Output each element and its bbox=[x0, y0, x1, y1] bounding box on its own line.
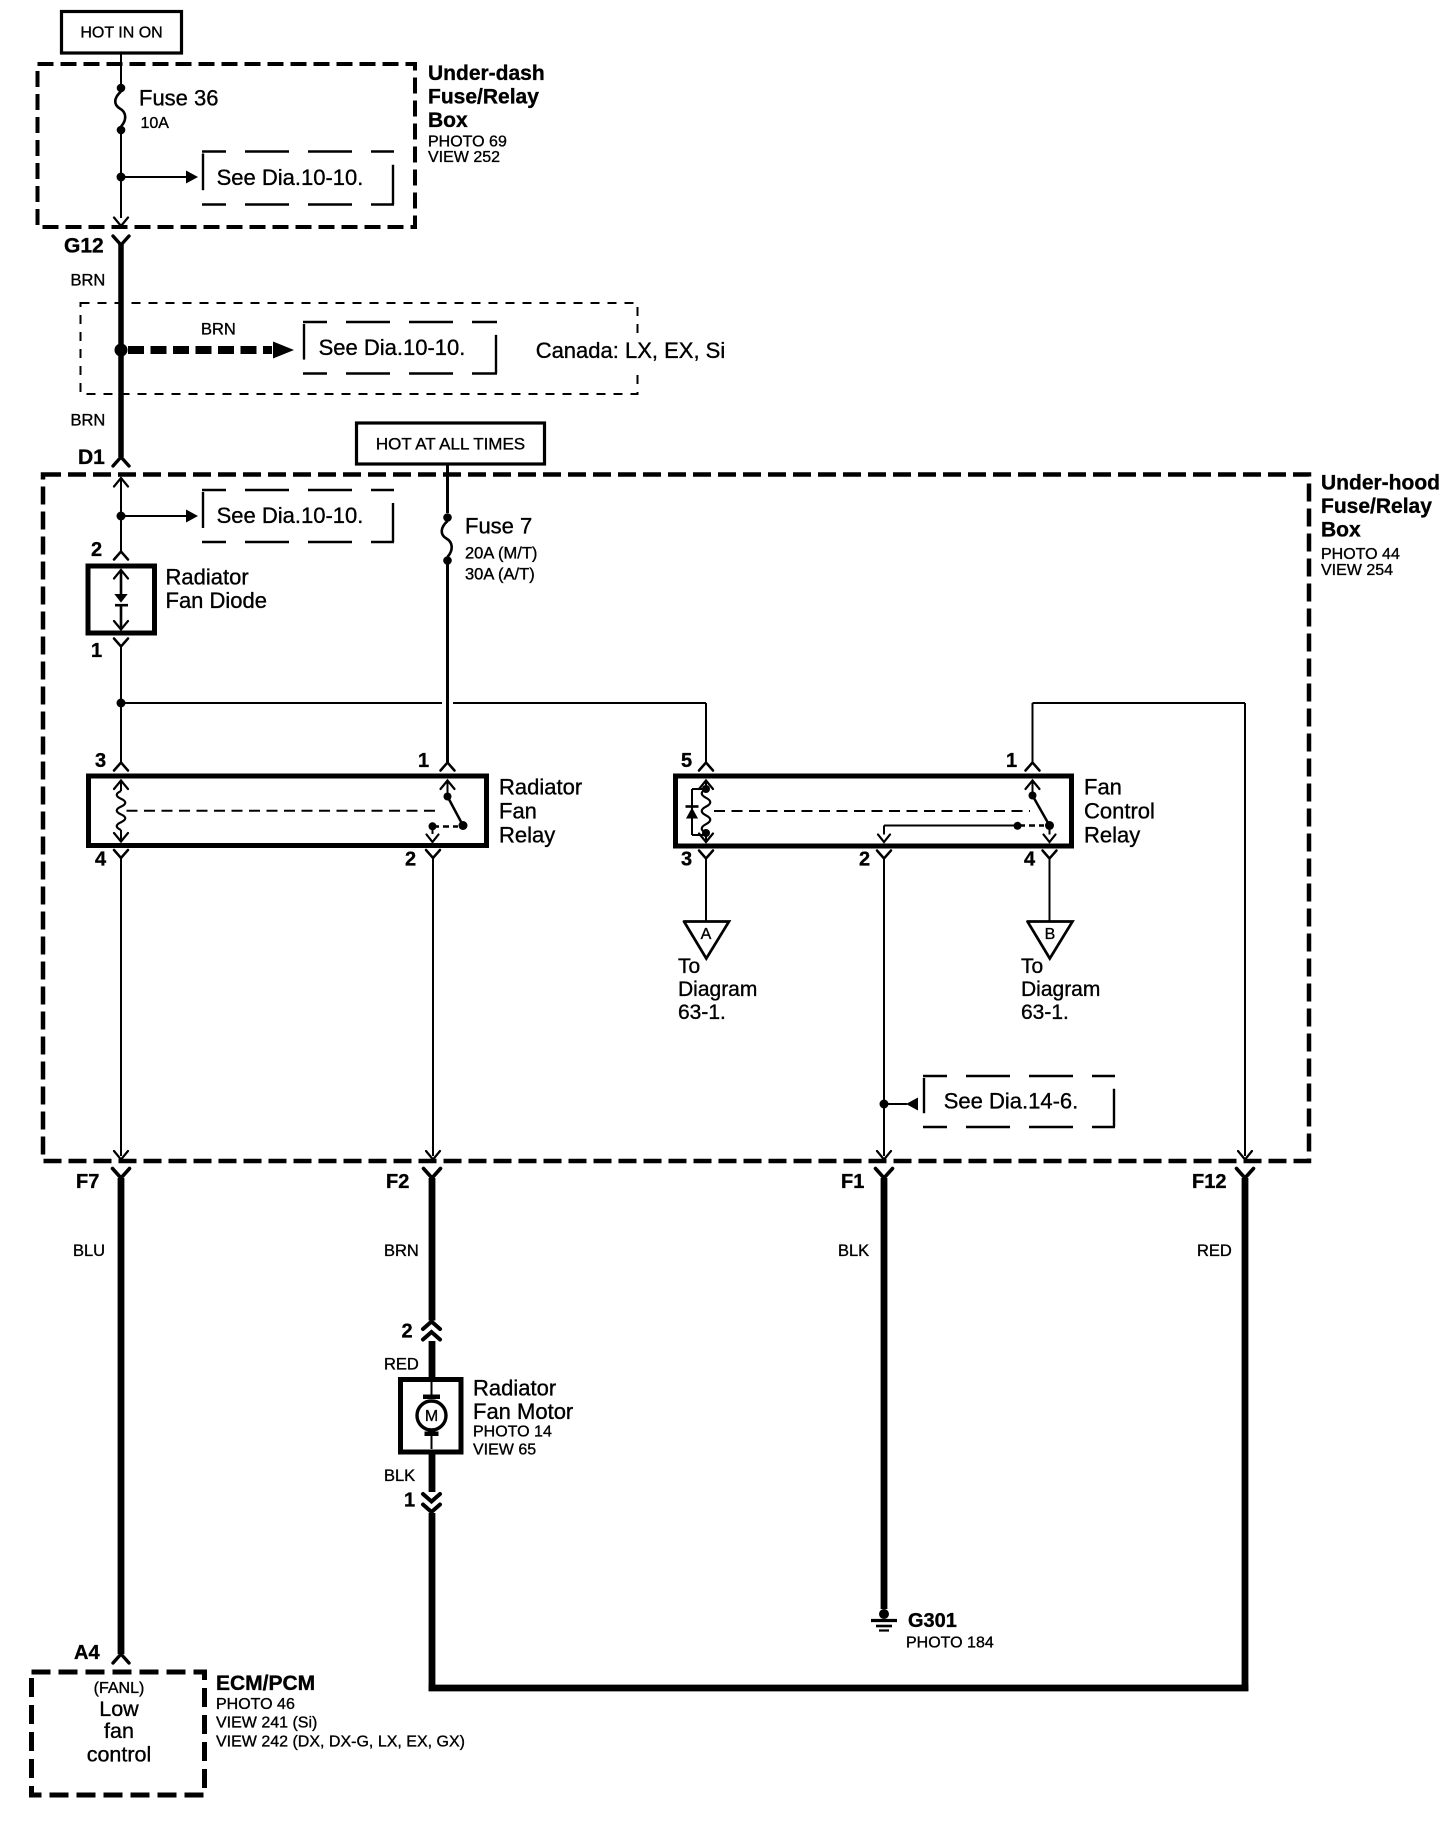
svg-text:(FANL): (FANL) bbox=[94, 1680, 145, 1697]
svg-text:G301: G301 bbox=[908, 1610, 957, 1632]
svg-text:Relay: Relay bbox=[499, 823, 555, 848]
svg-text:Fan Diode: Fan Diode bbox=[166, 588, 268, 613]
svg-text:PHOTO 46: PHOTO 46 bbox=[216, 1696, 295, 1713]
svg-text:4: 4 bbox=[1024, 849, 1036, 871]
svg-text:2: 2 bbox=[91, 539, 102, 561]
svg-text:Relay: Relay bbox=[1084, 823, 1140, 848]
svg-text:Fan: Fan bbox=[499, 799, 537, 824]
svg-text:Control: Control bbox=[1084, 799, 1155, 824]
svg-text:Box: Box bbox=[428, 109, 468, 132]
svg-text:Radiator: Radiator bbox=[166, 565, 249, 590]
svg-text:VIEW 242 (DX, DX-G, LX, EX, GX: VIEW 242 (DX, DX-G, LX, EX, GX) bbox=[216, 1734, 465, 1751]
svg-text:2: 2 bbox=[405, 849, 416, 871]
svg-text:B: B bbox=[1045, 926, 1056, 943]
svg-text:Fuse 7: Fuse 7 bbox=[465, 514, 532, 539]
svg-text:VIEW 252: VIEW 252 bbox=[428, 149, 500, 166]
svg-text:See Dia.10-10.: See Dia.10-10. bbox=[217, 503, 364, 528]
svg-text:See Dia.10-10.: See Dia.10-10. bbox=[217, 165, 364, 190]
svg-text:HOT IN ON: HOT IN ON bbox=[80, 25, 162, 42]
svg-text:F7: F7 bbox=[76, 1171, 99, 1193]
svg-text:See Dia.14-6.: See Dia.14-6. bbox=[944, 1089, 1079, 1114]
svg-text:To: To bbox=[678, 955, 700, 978]
svg-text:BLK: BLK bbox=[838, 1242, 869, 1260]
svg-text:BRN: BRN bbox=[201, 321, 236, 339]
svg-text:2: 2 bbox=[859, 849, 870, 871]
svg-text:PHOTO 44: PHOTO 44 bbox=[1321, 546, 1400, 563]
svg-text:1: 1 bbox=[404, 1490, 415, 1512]
svg-text:BRN: BRN bbox=[384, 1242, 419, 1260]
svg-text:To: To bbox=[1021, 955, 1043, 978]
svg-text:Diagram: Diagram bbox=[1021, 978, 1100, 1001]
svg-text:Under-hood: Under-hood bbox=[1321, 472, 1440, 495]
svg-text:1: 1 bbox=[418, 750, 429, 772]
svg-text:Fuse/Relay: Fuse/Relay bbox=[1321, 495, 1432, 518]
svg-text:Fan Motor: Fan Motor bbox=[473, 1399, 573, 1424]
svg-text:M: M bbox=[425, 1408, 438, 1425]
svg-text:RED: RED bbox=[384, 1356, 419, 1374]
svg-text:F1: F1 bbox=[841, 1171, 864, 1193]
svg-text:5: 5 bbox=[681, 750, 692, 772]
svg-text:G12: G12 bbox=[64, 235, 104, 258]
svg-text:20A (M/T): 20A (M/T) bbox=[465, 545, 537, 563]
svg-text:2: 2 bbox=[402, 1321, 413, 1343]
svg-text:HOT AT ALL TIMES: HOT AT ALL TIMES bbox=[376, 435, 525, 454]
svg-text:3: 3 bbox=[681, 849, 692, 871]
svg-text:Box: Box bbox=[1321, 519, 1361, 542]
svg-text:RED: RED bbox=[1197, 1242, 1232, 1260]
svg-text:See Dia.10-10.: See Dia.10-10. bbox=[319, 335, 466, 360]
svg-text:BRN: BRN bbox=[71, 412, 106, 430]
svg-text:ECM/PCM: ECM/PCM bbox=[216, 1672, 315, 1695]
svg-text:63-1.: 63-1. bbox=[1021, 1001, 1069, 1024]
svg-text:30A (A/T): 30A (A/T) bbox=[465, 566, 535, 584]
svg-text:F12: F12 bbox=[1192, 1171, 1226, 1193]
svg-text:VIEW 241 (Si): VIEW 241 (Si) bbox=[216, 1715, 317, 1732]
svg-text:Radiator: Radiator bbox=[473, 1376, 556, 1401]
svg-text:A: A bbox=[701, 926, 712, 943]
svg-text:VIEW 65: VIEW 65 bbox=[473, 1442, 536, 1459]
svg-text:BRN: BRN bbox=[71, 272, 106, 290]
svg-text:1: 1 bbox=[91, 640, 102, 662]
svg-text:10A: 10A bbox=[141, 115, 170, 132]
svg-text:1: 1 bbox=[1006, 750, 1017, 772]
svg-text:Radiator: Radiator bbox=[499, 775, 582, 800]
svg-text:BLK: BLK bbox=[384, 1467, 415, 1485]
svg-text:Fuse 36: Fuse 36 bbox=[139, 86, 219, 111]
svg-text:Canada: LX, EX, Si: Canada: LX, EX, Si bbox=[536, 338, 726, 363]
svg-text:63-1.: 63-1. bbox=[678, 1001, 726, 1024]
svg-text:VIEW 254: VIEW 254 bbox=[1321, 562, 1393, 579]
svg-text:PHOTO 184: PHOTO 184 bbox=[906, 1635, 994, 1652]
svg-text:PHOTO 69: PHOTO 69 bbox=[428, 134, 507, 151]
svg-text:PHOTO 14: PHOTO 14 bbox=[473, 1424, 552, 1441]
svg-text:BLU: BLU bbox=[73, 1242, 105, 1260]
svg-text:Diagram: Diagram bbox=[678, 978, 757, 1001]
svg-text:3: 3 bbox=[95, 750, 106, 772]
svg-text:Under-dash: Under-dash bbox=[428, 62, 545, 85]
svg-text:A4: A4 bbox=[74, 1642, 100, 1664]
svg-text:Fuse/Relay: Fuse/Relay bbox=[428, 86, 539, 109]
svg-text:control: control bbox=[87, 1743, 152, 1767]
svg-text:D1: D1 bbox=[78, 446, 105, 469]
svg-text:Low: Low bbox=[99, 1697, 139, 1721]
svg-text:Fan: Fan bbox=[1084, 775, 1122, 800]
svg-text:4: 4 bbox=[95, 849, 107, 871]
svg-text:F2: F2 bbox=[386, 1171, 409, 1193]
svg-text:fan: fan bbox=[104, 1719, 134, 1743]
